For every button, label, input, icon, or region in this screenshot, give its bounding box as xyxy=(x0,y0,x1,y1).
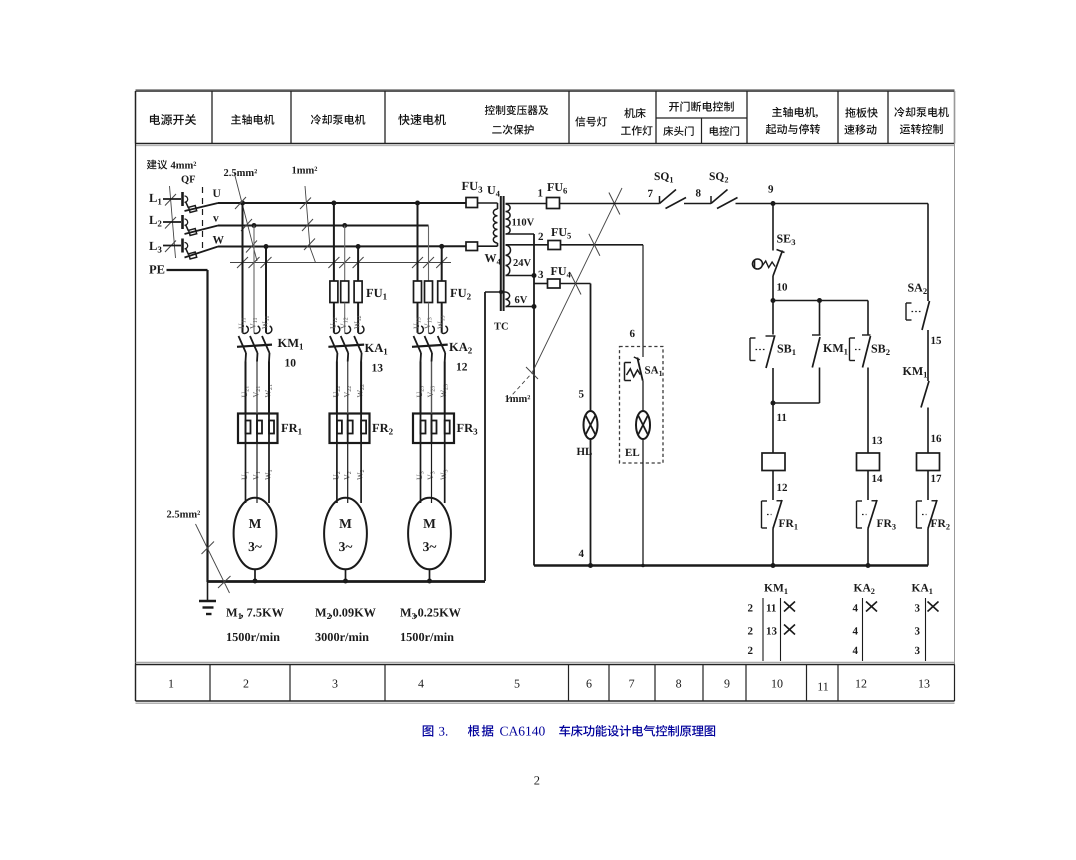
svg-text:4: 4 xyxy=(418,677,424,691)
contactor KM1 main contacts xyxy=(237,326,304,370)
svg-text:9: 9 xyxy=(724,677,730,691)
svg-text:3~: 3~ xyxy=(248,539,262,554)
svg-text:FU1: FU1 xyxy=(366,286,388,302)
svg-text:12: 12 xyxy=(456,362,468,374)
header cell: power switch xyxy=(150,114,196,125)
svg-text:15: 15 xyxy=(931,335,943,347)
svg-text:11: 11 xyxy=(777,412,787,424)
PE conductor xyxy=(167,270,208,582)
overload contact FR1 xyxy=(762,500,799,566)
svg-text:3: 3 xyxy=(915,645,921,657)
signal lamp HL branch xyxy=(579,284,591,412)
wire labels U21 V21 W21 xyxy=(240,384,274,398)
svg-text:KM1: KM1 xyxy=(903,364,928,380)
overload contact FR3 xyxy=(857,500,897,566)
coolant pump branch wires with fuses FU1 xyxy=(330,203,388,333)
self-holding contact KM1 xyxy=(773,301,848,404)
node 12 xyxy=(773,471,788,501)
svg-text:SQ2: SQ2 xyxy=(709,171,729,185)
svg-text:W13: W13 xyxy=(436,315,447,329)
svg-text:KA1: KA1 xyxy=(912,583,933,597)
work lamp EL branch node 6 xyxy=(630,245,644,357)
svg-text:QF: QF xyxy=(181,175,196,186)
circuit breaker QF xyxy=(163,175,218,260)
svg-text:W4: W4 xyxy=(485,251,502,267)
svg-text:U12: U12 xyxy=(328,317,339,329)
svg-text:11: 11 xyxy=(766,603,776,615)
svg-text:FR2: FR2 xyxy=(931,518,951,532)
wire gauge note 2.5mm2 top xyxy=(224,168,258,261)
svg-text:4: 4 xyxy=(853,645,859,657)
wire labels U13 V13 W13 xyxy=(412,315,447,329)
door limit switch SQ2 xyxy=(709,171,738,209)
svg-text:1mm²: 1mm² xyxy=(292,166,318,177)
header cell: machine work lamp xyxy=(624,108,645,118)
thermal overload relay FR1 xyxy=(238,362,303,444)
svg-text:10: 10 xyxy=(285,358,297,370)
relay contacts KA1 xyxy=(328,326,388,375)
svg-text:KM1: KM1 xyxy=(823,341,848,357)
svg-text:,0.25KW: ,0.25KW xyxy=(415,606,462,620)
svg-text:3: 3 xyxy=(915,603,921,615)
svg-text:3~: 3~ xyxy=(423,539,437,554)
svg-text:2.5mm²: 2.5mm² xyxy=(167,510,201,521)
svg-text:1: 1 xyxy=(168,677,174,691)
phase labels L1 L2 L3 and PE xyxy=(149,191,165,277)
spindle motor branch wires xyxy=(243,203,267,333)
svg-text:U13: U13 xyxy=(412,317,423,329)
svg-text:4mm²: 4mm² xyxy=(171,161,197,172)
svg-text:CA6140: CA6140 xyxy=(500,724,546,739)
svg-text:13: 13 xyxy=(372,363,384,375)
svg-text:EL: EL xyxy=(625,447,640,459)
node 14 xyxy=(868,471,883,501)
svg-text:4: 4 xyxy=(853,603,859,615)
motor M2 rating text xyxy=(315,606,377,645)
svg-text:KA1: KA1 xyxy=(365,341,389,357)
header cell: carriage rapid move xyxy=(845,107,877,117)
motor M3 xyxy=(408,443,451,581)
svg-text:16: 16 xyxy=(931,433,943,445)
svg-text:L2: L2 xyxy=(149,213,162,229)
relay contacts KA2 xyxy=(412,326,473,374)
zone numbers 1-13 xyxy=(168,677,930,694)
node 3 and fuse FU4 xyxy=(534,264,591,288)
svg-text:SQ1: SQ1 xyxy=(654,171,674,185)
svg-text:,: , xyxy=(816,107,819,119)
start button SB2 xyxy=(850,301,890,454)
relay coil KA1 xyxy=(917,453,940,471)
dashed enclosure for lamp unit xyxy=(620,347,664,464)
svg-text:FR1: FR1 xyxy=(779,518,799,532)
svg-text:, 7.5KW: , 7.5KW xyxy=(241,606,285,620)
svg-text:2: 2 xyxy=(748,645,754,657)
bottom zone number row xyxy=(136,662,955,703)
transformer frame return wire xyxy=(485,290,506,581)
motor M2 xyxy=(324,443,367,581)
svg-text:3~: 3~ xyxy=(339,539,353,554)
wire labels U23 V23 W23 xyxy=(415,384,450,398)
svg-text:FU5: FU5 xyxy=(551,225,571,241)
contact table KA1 xyxy=(912,583,939,662)
svg-text:2: 2 xyxy=(538,231,544,243)
svg-text:L3: L3 xyxy=(149,239,162,255)
motor M1 xyxy=(234,443,277,581)
transformer core xyxy=(501,196,504,311)
door limit switch SQ1 xyxy=(654,171,686,209)
bus U xyxy=(218,202,466,204)
header cell: coolant pump motor xyxy=(311,114,365,124)
phase marks U V W xyxy=(213,188,225,247)
svg-text:W11: W11 xyxy=(261,316,272,329)
svg-text:KA2: KA2 xyxy=(449,340,473,356)
transformer TC primary winding xyxy=(478,183,509,333)
interlock contact KM1 on pump branch xyxy=(903,364,943,453)
svg-text:13: 13 xyxy=(766,626,778,638)
svg-text:2: 2 xyxy=(748,626,754,638)
svg-text:11: 11 xyxy=(817,680,829,694)
control circuit bottom bus node 4 xyxy=(534,548,928,568)
contactor coil KM1 xyxy=(762,453,785,471)
svg-text:L1: L1 xyxy=(149,191,162,207)
svg-text:14: 14 xyxy=(872,473,884,485)
stop button SB1 xyxy=(750,301,796,404)
node 2 and fuse FU5 xyxy=(506,225,644,250)
svg-text:V12: V12 xyxy=(339,317,350,329)
svg-text:9: 9 xyxy=(768,184,774,196)
svg-text:FR1: FR1 xyxy=(281,421,303,437)
svg-text:17: 17 xyxy=(931,473,943,485)
svg-text:1500r/min: 1500r/min xyxy=(226,630,280,644)
svg-text:4: 4 xyxy=(853,626,859,638)
svg-text:FR2: FR2 xyxy=(372,421,394,437)
svg-text:3: 3 xyxy=(538,269,544,281)
bus junction dots xyxy=(240,201,444,250)
svg-text:6: 6 xyxy=(630,328,636,340)
node 17 xyxy=(928,471,942,501)
svg-text:SA1: SA1 xyxy=(645,365,663,379)
node 11 xyxy=(771,401,787,454)
contact table KA2 xyxy=(853,583,878,662)
svg-text:5: 5 xyxy=(579,389,585,401)
transformer 6V secondary winding xyxy=(506,292,528,307)
svg-text:1500r/min: 1500r/min xyxy=(400,630,454,644)
svg-text:FU6: FU6 xyxy=(547,180,568,196)
svg-text:V13: V13 xyxy=(423,317,434,329)
selector switch SA2 xyxy=(906,204,942,382)
work lamp EL xyxy=(625,411,650,566)
svg-text:4: 4 xyxy=(579,548,585,560)
overload contact FR2 xyxy=(917,500,951,566)
wire labels U2 V2 W2 xyxy=(331,469,366,480)
fuse on W side of transformer primary xyxy=(466,242,478,251)
svg-text:10: 10 xyxy=(777,282,789,294)
svg-text:KM1: KM1 xyxy=(278,336,305,352)
svg-text:8: 8 xyxy=(696,188,702,200)
svg-text:6: 6 xyxy=(586,677,592,691)
svg-text:24V: 24V xyxy=(513,258,532,269)
svg-text:PE: PE xyxy=(149,263,165,277)
svg-text:13: 13 xyxy=(872,435,884,447)
svg-text:12: 12 xyxy=(855,677,867,691)
svg-text:KA2: KA2 xyxy=(854,583,875,597)
svg-text:SE3: SE3 xyxy=(777,232,796,248)
motor M3 rating text xyxy=(400,606,462,645)
svg-text:SA2: SA2 xyxy=(908,281,928,297)
wire node 8 xyxy=(684,188,711,204)
svg-text:FU4: FU4 xyxy=(551,264,572,280)
bus V xyxy=(218,225,429,227)
svg-text:W: W xyxy=(213,235,225,247)
svg-text:M: M xyxy=(339,516,352,531)
wire labels U1 V1 W1 xyxy=(240,469,274,480)
header subcell: electrical cabinet door xyxy=(710,126,739,136)
relay coil KA2 xyxy=(857,453,880,471)
header cell: coolant pump motor run control xyxy=(894,107,948,117)
transformer 110V secondary winding xyxy=(506,204,535,234)
svg-text:3000r/min: 3000r/min xyxy=(315,630,369,644)
svg-text:7: 7 xyxy=(648,188,654,200)
svg-text:1: 1 xyxy=(538,188,544,200)
svg-text:2: 2 xyxy=(534,774,540,788)
header cell: spindle motor xyxy=(231,114,274,124)
signal lamp HL xyxy=(577,411,598,566)
transformer 24V secondary winding xyxy=(506,245,532,276)
header cell: control transformer and secondary protection xyxy=(485,105,549,115)
wire gauge note 1mm2 control xyxy=(505,188,623,405)
svg-text:2: 2 xyxy=(748,603,754,615)
svg-text:v: v xyxy=(213,213,219,225)
motor bottom bus xyxy=(208,579,486,584)
svg-text:FU2: FU2 xyxy=(450,286,472,302)
wire gauge note 2.5mm2 bottom xyxy=(167,510,231,594)
svg-text:V11: V11 xyxy=(249,317,260,329)
rapid motor branch wires with fuses FU2 xyxy=(414,203,472,333)
svg-text:SB1: SB1 xyxy=(777,342,796,358)
wire labels U12 V12 W12 xyxy=(328,315,363,329)
svg-text:2.5mm²: 2.5mm² xyxy=(224,168,258,179)
header cell: door-open power-off control xyxy=(669,101,734,111)
wire labels U11 V11 W11 xyxy=(237,316,271,329)
header cell: signal lamp xyxy=(575,116,607,126)
svg-text:TC: TC xyxy=(494,322,509,333)
left frame border xyxy=(135,91,137,701)
header cell: spindle motor start and stop xyxy=(772,107,815,117)
control supply wire 110V xyxy=(560,188,660,204)
svg-text:8: 8 xyxy=(676,677,682,691)
svg-text:6V: 6V xyxy=(515,295,528,306)
fuse FU3 xyxy=(462,179,484,208)
wire gauge note 4mm2 xyxy=(147,160,197,258)
bus W xyxy=(218,245,466,247)
header cell: rapid motor xyxy=(398,114,446,125)
svg-text:3: 3 xyxy=(915,626,921,638)
lamp switch SA1 xyxy=(625,357,663,412)
wire labels U3 V3 W3 xyxy=(415,469,450,480)
svg-text:3.: 3. xyxy=(439,724,449,739)
svg-text:SB2: SB2 xyxy=(871,342,890,358)
svg-text:M: M xyxy=(249,516,262,531)
wire labels U22 V22 W22 xyxy=(331,384,366,398)
svg-text:2: 2 xyxy=(243,677,249,691)
svg-text:KM1: KM1 xyxy=(764,583,788,597)
svg-text:U: U xyxy=(213,188,222,200)
svg-text:U4: U4 xyxy=(487,183,501,199)
svg-text:FR3: FR3 xyxy=(877,518,897,532)
ground symbol xyxy=(199,582,216,614)
thermal overload relay FR2 xyxy=(330,362,394,444)
node 1 and fuse FU6 xyxy=(506,180,569,209)
figure caption xyxy=(423,724,715,739)
wire gauge note 1mm2 left xyxy=(230,166,451,269)
svg-text:110V: 110V xyxy=(512,218,535,229)
right frame border xyxy=(954,91,956,701)
header subcell: headstock door xyxy=(663,126,693,136)
svg-text:,0.09KW: ,0.09KW xyxy=(330,606,377,620)
emergency stop SE3 xyxy=(753,204,796,301)
motor M1 rating text xyxy=(226,606,285,645)
svg-text:M: M xyxy=(423,516,436,531)
svg-text:7: 7 xyxy=(629,677,635,691)
secondary common wire xyxy=(506,234,537,566)
contact table KM1 xyxy=(748,583,796,662)
wire node 9 xyxy=(736,184,929,207)
svg-text:W12: W12 xyxy=(353,315,364,329)
svg-text:12: 12 xyxy=(777,482,789,494)
svg-text:U11: U11 xyxy=(237,317,248,329)
svg-text:FU3: FU3 xyxy=(462,179,484,195)
svg-text:5: 5 xyxy=(514,677,520,691)
svg-text:10: 10 xyxy=(771,677,783,691)
svg-text:3: 3 xyxy=(332,677,338,691)
svg-text:13: 13 xyxy=(918,677,930,691)
node 10 xyxy=(771,282,869,304)
thermal overload relay FR3 xyxy=(413,362,478,444)
svg-text:FR3: FR3 xyxy=(457,421,479,437)
header table frame xyxy=(136,90,955,146)
